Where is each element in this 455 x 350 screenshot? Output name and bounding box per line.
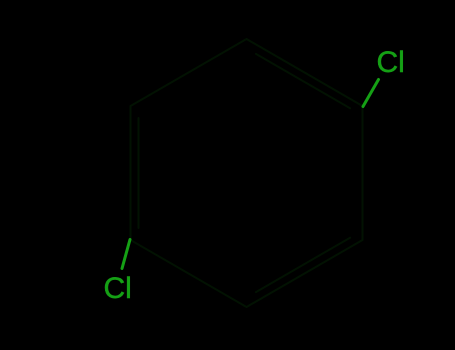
wire ring edge UL-LL xyxy=(130,106,132,240)
bond C-Cl top (chlorine colored) xyxy=(363,80,379,107)
wire ring edge LL-B xyxy=(131,240,247,307)
wire inner double bond LR-B xyxy=(256,238,350,292)
wire inner double bond T-UR xyxy=(256,54,350,108)
svg-text:Cl: Cl xyxy=(104,272,132,305)
wire inner double bond UL-LL xyxy=(138,118,140,228)
wire ring edge UR-T xyxy=(247,39,363,106)
svg-text:Cl: Cl xyxy=(377,46,405,79)
bond C-Cl bottom (chlorine colored) xyxy=(122,240,130,269)
wire ring edge LR-UR xyxy=(362,106,364,240)
wire ring edge T-UL xyxy=(131,39,247,106)
wire ring edge B-LR xyxy=(247,240,363,307)
benzene ring (dark carbon bonds) xyxy=(131,39,363,307)
